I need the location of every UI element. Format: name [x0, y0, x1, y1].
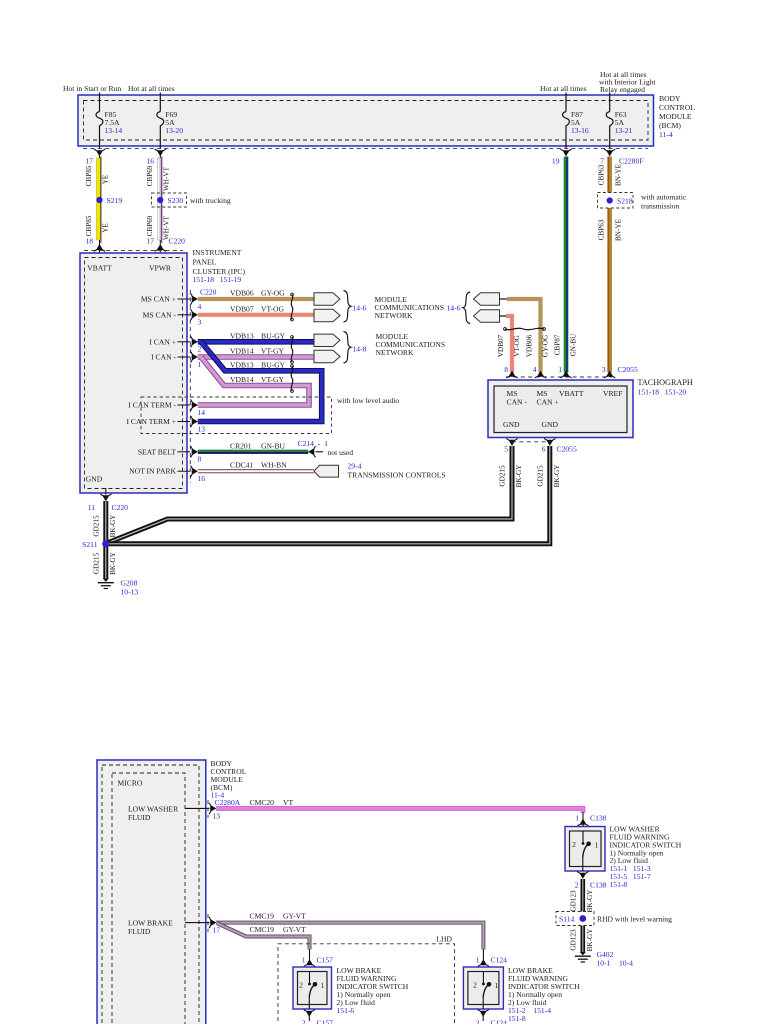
svg-text:I CAN TERM -: I CAN TERM - — [128, 401, 176, 410]
svg-text:LHD: LHD — [436, 935, 452, 944]
C124 switch internals — [473, 972, 499, 1010]
tachograph pin name VBATT — [559, 389, 584, 398]
svg-text:13-21: 13-21 — [615, 126, 633, 135]
svg-text:not used: not used — [328, 448, 354, 457]
twisted pair marker I CAN TERM pair — [291, 365, 294, 393]
svg-text:VREF: VREF — [603, 389, 622, 398]
wire label CBP85 upper — [85, 165, 93, 186]
svg-text:Hot in Start or Run: Hot in Start or Run — [63, 84, 121, 93]
connector arrow BCM pin 17 — [85, 149, 105, 166]
svg-text:11: 11 — [88, 503, 96, 512]
svg-text:1: 1 — [575, 814, 579, 823]
wire label GD215 (tach pin6) — [537, 465, 545, 487]
IPC pin 17 label and C220 — [146, 237, 185, 246]
wire label CMC20 VT — [250, 798, 294, 807]
low brake fluid warning indicator switch C124 box — [463, 967, 503, 1009]
svg-text:CMC19: CMC19 — [250, 911, 275, 920]
LHD brake switch pin 1 arrow C157 — [302, 949, 333, 967]
IPC pin name NOT IN PARK — [129, 467, 190, 476]
wire label WH-VT upper — [163, 166, 171, 191]
svg-text:CMC20: CMC20 — [250, 798, 275, 807]
tachograph bottom pin 6 arrow and C2055 — [542, 439, 577, 454]
svg-text:CBP87: CBP87 — [554, 334, 562, 355]
svg-text:VDB13: VDB13 — [230, 331, 254, 340]
wire label WH-VT lower — [163, 215, 171, 240]
low washer fluid warning indicator switch C138 box — [565, 827, 605, 872]
svg-text:G208: G208 — [121, 579, 138, 588]
svg-text:GD123: GD123 — [570, 929, 578, 951]
BCM box bottom (Body Control Module) — [97, 760, 206, 1024]
not in park wire CDC41 WH-BN from IPC pin 16 — [198, 461, 314, 474]
svg-text:14-8: 14-8 — [353, 345, 367, 354]
svg-text:4: 4 — [198, 302, 202, 311]
svg-text:Hot at all times: Hot at all times — [540, 84, 587, 93]
fuse F63 5A — [606, 110, 632, 135]
C124 switch label — [508, 966, 580, 1023]
wire CBP85 YE yellow vertical (pin17 to S219 to pin18) — [97, 152, 101, 245]
IPC pin 18 label — [85, 237, 93, 246]
splice S211 — [82, 540, 109, 549]
svg-text:2: 2 — [302, 1019, 306, 1024]
svg-text:BK-GY: BK-GY — [109, 514, 117, 538]
wire CMC19 GY-VT lower from BCM pin 17 to LHD brake switch C157 — [217, 923, 310, 949]
IPC pin name I CAN - — [151, 353, 190, 362]
svg-text:GD215: GD215 — [93, 553, 101, 575]
wire label CBP87 — [554, 334, 562, 355]
wire label CBP69 upper — [146, 165, 154, 186]
ground wire GD215 BK-GY from tachograph pin 5 to splice S211 — [105, 446, 512, 544]
BCM pin 17 arrow — [209, 917, 220, 935]
ground G402 — [575, 950, 633, 968]
seat belt wire CR201 GN-BU from IPC pin 8 — [198, 441, 308, 454]
MODULE COMMUNICATIONS NETWORK label (I CAN) — [376, 332, 446, 357]
svg-text:BN-YE: BN-YE — [615, 218, 623, 241]
wire label CBP63 lower — [598, 219, 606, 240]
svg-text:INSTRUMENT: INSTRUMENT — [193, 248, 242, 257]
svg-text:16: 16 — [146, 157, 154, 166]
connector dashed line above IPC — [84, 249, 183, 251]
svg-text:CBP63: CBP63 — [598, 219, 606, 240]
ground wire GD215 BK-GY from tachograph pin 6 to splice S211 — [105, 446, 550, 544]
connector arrow into IPC VBATT — [94, 244, 105, 258]
wire CBP87 GN-BU green vertical from BCM pin19 to tachograph pin1 — [564, 157, 569, 373]
wire label BK-GY lower — [586, 928, 594, 952]
svg-text:CMC19: CMC19 — [250, 925, 275, 934]
svg-text:BN-YE: BN-YE — [615, 163, 623, 186]
wire label VDB06 — [526, 334, 534, 357]
svg-text:GD215: GD215 — [537, 465, 545, 487]
splice S219 — [96, 196, 122, 205]
splice S114 RHD with level warning — [556, 912, 672, 926]
svg-text:17: 17 — [146, 237, 154, 246]
svg-text:with trucking: with trucking — [190, 196, 231, 205]
svg-text:5: 5 — [504, 445, 508, 454]
IPC pin 4 arrow — [191, 293, 202, 310]
svg-text:BK-GY: BK-GY — [586, 928, 594, 952]
wire label CBP85 lower — [85, 215, 93, 236]
svg-text:BK-GY: BK-GY — [109, 551, 117, 575]
connector arrow BCM pin 7, C2280F — [600, 149, 643, 166]
svg-text:VT-OG: VT-OG — [513, 335, 521, 357]
connector C220 label at IPC right — [200, 288, 217, 297]
IPC internal pin name VPWR — [149, 264, 172, 273]
svg-text:16: 16 — [198, 474, 206, 483]
C157 switch pin 2 arrow — [302, 1010, 333, 1024]
ground wire GD123 BK-GY from switch to splice S114 — [580, 879, 585, 952]
svg-text:BU-GY: BU-GY — [261, 331, 286, 340]
svg-text:GY-VT: GY-VT — [283, 911, 306, 920]
twisted pair marker tachograph CAN pair (horizontal) — [504, 328, 546, 331]
svg-text:VDB14: VDB14 — [230, 347, 254, 356]
svg-text:10-1: 10-1 — [597, 959, 611, 968]
svg-text:C2280A: C2280A — [215, 798, 241, 807]
svg-text:VDB13: VDB13 — [230, 360, 254, 369]
IPC pin 16 arrow — [191, 466, 206, 483]
tachograph bottom pin 5 arrow — [504, 439, 517, 454]
tachograph pin name GND 1 — [503, 420, 520, 429]
connector pentagon I CAN - — [314, 350, 340, 362]
washer switch internals — [572, 831, 599, 871]
svg-text:RHD with level warning: RHD with level warning — [597, 915, 672, 924]
svg-text:VT: VT — [283, 798, 293, 807]
connector arrow into IPC VPWR — [155, 244, 166, 258]
svg-text:GY-VT: GY-VT — [283, 925, 306, 934]
stub wire from MICRO to BCM pin 17 — [185, 922, 210, 924]
fuse F87 5A — [563, 110, 589, 135]
connector C214 pin 1 not used arrow — [298, 439, 354, 457]
svg-text:VT-OG: VT-OG — [261, 304, 284, 313]
wire: F69 feed vertical — [159, 93, 161, 149]
svg-text:C138: C138 — [590, 814, 607, 823]
svg-text:6: 6 — [542, 445, 546, 454]
IPC pin 13 arrow — [191, 416, 206, 433]
IPC pin name MS CAN - — [143, 310, 190, 319]
IPC internal pin name VBATT — [87, 264, 112, 273]
BCM bottom label text — [211, 759, 247, 800]
ref 14-6 and brace for tachograph CAN pair — [447, 292, 471, 324]
wire label GY-OG — [542, 335, 550, 357]
MODULE COMMUNICATIONS NETWORK label (MS CAN) — [375, 295, 445, 320]
twisted pair marker MS CAN pair — [291, 293, 294, 321]
svg-text:VPWR: VPWR — [149, 264, 172, 273]
svg-text:CBP69: CBP69 — [146, 215, 154, 236]
svg-text:CAN -: CAN - — [507, 398, 528, 407]
svg-text:2: 2 — [575, 881, 579, 890]
svg-text:PANEL: PANEL — [193, 258, 217, 267]
BCM internal label LOW WASHER FLUID — [128, 805, 179, 823]
wire label BN-YE lower — [615, 218, 623, 241]
ground G208 — [98, 579, 139, 597]
svg-text:C138: C138 — [590, 881, 607, 890]
connector arrow BCM pin 16 — [146, 149, 165, 166]
svg-text:3: 3 — [602, 365, 606, 374]
IPC pin name MS CAN + — [141, 295, 190, 304]
wire VDB13 BU-GY from IPC pin2 to connector — [198, 331, 314, 342]
svg-text:MICRO: MICRO — [118, 779, 143, 788]
wire label BK-GY upper — [586, 889, 594, 913]
fuse F69 5A — [157, 110, 183, 135]
svg-text:151-8: 151-8 — [508, 1014, 526, 1023]
svg-text:C2280F: C2280F — [619, 157, 643, 166]
svg-text:NOT IN PARK: NOT IN PARK — [129, 467, 176, 476]
IPC pin 3 arrow — [191, 309, 202, 326]
svg-text:S230: S230 — [168, 196, 184, 205]
svg-text:MS CAN -: MS CAN - — [143, 310, 177, 319]
tachograph pin 1 arrow — [558, 365, 571, 378]
BCM pin 13 arrow C2280A — [209, 798, 241, 821]
svg-text:Hot at all times: Hot at all times — [128, 84, 175, 93]
wire label YE upper — [102, 174, 110, 184]
splice S230 with trucking option box — [152, 193, 231, 207]
wire label BN-YE upper — [615, 163, 623, 186]
svg-text:VBATT: VBATT — [559, 389, 584, 398]
svg-text:SEAT BELT: SEAT BELT — [138, 447, 177, 456]
connector dashed line below tachograph — [512, 441, 550, 443]
wire label VT-OG — [513, 335, 521, 357]
connector dashed line above tachograph — [506, 376, 612, 378]
svg-text:18: 18 — [85, 237, 93, 246]
tachograph pin name GND 2 — [542, 420, 559, 429]
svg-text:14-6: 14-6 — [447, 304, 461, 313]
svg-text:GND: GND — [542, 420, 559, 429]
twisted pair marker I CAN pair — [291, 336, 294, 364]
svg-text:TRANSMISSION CONTROLS: TRANSMISSION CONTROLS — [348, 471, 446, 480]
svg-text:19: 19 — [552, 157, 560, 166]
svg-text:CBP85: CBP85 — [85, 215, 93, 236]
tachograph pin name MS CAN - — [507, 389, 528, 407]
svg-text:VDB07: VDB07 — [230, 304, 254, 313]
svg-text:10-13: 10-13 — [121, 588, 139, 597]
wire: F87 feed vertical — [565, 93, 567, 149]
svg-text:13-20: 13-20 — [165, 126, 183, 135]
wire label VDB07 — [497, 334, 505, 357]
svg-text:151-18 151-19: 151-18 151-19 — [193, 275, 242, 284]
svg-text:TACHOGRAPH: TACHOGRAPH — [638, 378, 693, 387]
svg-text:8: 8 — [198, 455, 202, 464]
svg-text:GND: GND — [503, 420, 520, 429]
svg-text:1: 1 — [302, 956, 306, 965]
svg-text:10-4: 10-4 — [619, 959, 633, 968]
svg-text:GY-OG: GY-OG — [542, 335, 550, 357]
svg-text:1: 1 — [476, 956, 480, 965]
connector pentagon MS CAN - — [314, 309, 340, 321]
svg-text:YE: YE — [102, 174, 110, 184]
IPC pin 2 arrow — [191, 336, 202, 353]
connector pentagon to tachograph MS CAN - (VT-OG) — [474, 310, 508, 322]
svg-text:C220: C220 — [169, 237, 186, 246]
tachograph pin name MS CAN + — [537, 389, 559, 407]
svg-text:VDB06: VDB06 — [526, 334, 534, 357]
svg-text:1: 1 — [495, 981, 499, 990]
svg-text:NETWORK: NETWORK — [376, 348, 414, 357]
svg-text:C124: C124 — [491, 956, 508, 965]
svg-text:CR201: CR201 — [230, 441, 252, 450]
IPC internal pin name GND — [86, 475, 103, 484]
svg-text:C2055: C2055 — [557, 445, 577, 454]
svg-text:GND: GND — [86, 475, 103, 484]
connector pentagon MS CAN + — [314, 293, 340, 305]
svg-text:FLUID: FLUID — [128, 813, 151, 822]
wire label BK-GY (tach pin5) — [515, 464, 523, 488]
svg-text:C124: C124 — [491, 1019, 508, 1024]
svg-text:VDB07: VDB07 — [497, 334, 505, 357]
power feed label: Hot in Start or Run — [63, 84, 121, 93]
wire CBP69 WH-VT vertical (pin16 to S230 to pin17) — [157, 152, 162, 245]
wire VDB06 GY-OG into tachograph pin 4 — [507, 299, 541, 373]
svg-text:13: 13 — [198, 424, 206, 433]
wire CBP63 BN-YE vertical from BCM pin7 to S218 to tachograph pin3 — [607, 157, 612, 373]
wire label GD123 lower — [570, 929, 578, 951]
connector dashed line below BCM — [83, 148, 648, 150]
svg-text:GY-OG: GY-OG — [261, 289, 285, 298]
wire VDB13 BU-GY loop from pin2 down to pin13 (I CAN TERM +) — [198, 342, 322, 422]
svg-text:C2055: C2055 — [618, 365, 638, 374]
svg-text:GN-BU: GN-BU — [570, 333, 578, 357]
tachograph pin name VREF — [603, 389, 622, 398]
svg-text:S219: S219 — [107, 196, 123, 205]
svg-text:MS CAN +: MS CAN + — [141, 295, 176, 304]
svg-text:FLUID: FLUID — [128, 927, 151, 936]
washer switch pin 2 arrow C138 — [575, 872, 607, 890]
svg-text:BU-GY: BU-GY — [261, 360, 286, 369]
svg-text:NETWORK: NETWORK — [375, 311, 413, 320]
svg-text:(BCM): (BCM) — [659, 121, 681, 130]
svg-text:1: 1 — [595, 841, 599, 850]
LHD option dashed box — [278, 935, 455, 1024]
BCM (Body Control Module) box top — [78, 95, 654, 146]
with low level audio option dashed box — [141, 396, 399, 434]
connector pentagon to tachograph MS CAN + (GY-OG) — [474, 293, 509, 305]
wire label CMC19 GY-VT upper — [250, 911, 307, 920]
wire label BK-GY upper — [109, 514, 117, 538]
svg-text:29-4: 29-4 — [348, 462, 362, 471]
svg-text:BK-GY: BK-GY — [553, 464, 561, 488]
svg-text:Relay engaged: Relay engaged — [600, 85, 645, 94]
svg-text:C220: C220 — [200, 288, 217, 297]
svg-text:BK-GY: BK-GY — [586, 889, 594, 913]
C157 switch internals — [299, 972, 325, 1010]
MICRO sub-module dashed box — [112, 773, 185, 1024]
wire label CMC19 GY-VT lower — [250, 925, 307, 934]
IPC pin name SEAT BELT — [138, 447, 190, 456]
IPC pin 1 arrow — [191, 351, 202, 368]
ground wire GD215 BK-GY from IPC GND to ground G208 — [103, 501, 108, 579]
svg-text:YE: YE — [102, 223, 110, 233]
svg-text:GD215: GD215 — [93, 515, 101, 537]
svg-text:I CAN TERM +: I CAN TERM + — [127, 417, 177, 426]
wire: F63 feed vertical — [609, 93, 611, 149]
svg-text:BODY: BODY — [659, 94, 681, 103]
IPC pin 8 arrow — [191, 446, 202, 463]
fuse F85 7.5A — [96, 110, 122, 135]
svg-text:I CAN -: I CAN - — [151, 353, 176, 362]
svg-text:4: 4 — [533, 365, 537, 374]
svg-text:CBP85: CBP85 — [85, 165, 93, 186]
C157 switch label — [337, 966, 409, 1015]
wire label GD215 (tach pin5) — [499, 465, 507, 487]
svg-text:VT-GY: VT-GY — [261, 347, 284, 356]
C124 switch pin 2 arrow — [476, 1010, 507, 1024]
svg-text:BK-GY: BK-GY — [515, 464, 523, 488]
wire label CBP69 lower — [146, 215, 154, 236]
svg-text:2: 2 — [476, 1019, 480, 1024]
wire label BK-GY lower — [109, 551, 117, 575]
wire label YE lower — [102, 223, 110, 233]
svg-text:CDC41: CDC41 — [230, 461, 253, 470]
svg-text:CBP63: CBP63 — [598, 164, 606, 185]
svg-text:CAN +: CAN + — [537, 398, 559, 407]
splice S218 with automatic transmission option box — [598, 193, 687, 211]
wire label CBP63 upper — [598, 164, 606, 185]
svg-text:3: 3 — [198, 318, 202, 327]
power feed label: Hot at all times with Interior Light Relay engaged (F63) — [599, 70, 656, 94]
brake switch pin 1 arrow C124 — [476, 949, 507, 967]
wire CMC20 VT from BCM pin 13 to washer switch C138 — [216, 808, 583, 813]
svg-text:151-18 151-20: 151-18 151-20 — [638, 388, 687, 397]
svg-text:transmission: transmission — [641, 202, 680, 211]
wire VDB14 VT-GY loop from pin1 down to pin14 (I CAN TERM -) — [198, 357, 309, 405]
wire label GD215 upper — [93, 515, 101, 537]
svg-text:GN-BU: GN-BU — [261, 441, 286, 450]
BCM internal label LOW BRAKE FLUID — [128, 919, 173, 937]
brace and ref 14-8 for I CAN pair — [344, 332, 367, 364]
svg-text:I CAN +: I CAN + — [149, 337, 176, 346]
svg-text:17: 17 — [85, 157, 93, 166]
svg-text:CONTROL: CONTROL — [659, 103, 695, 112]
svg-text:VBATT: VBATT — [87, 264, 112, 273]
wire label BK-GY (tach pin6) — [553, 464, 561, 488]
svg-text:S211: S211 — [82, 540, 98, 549]
wire CMC19 GY-VT upper from BCM pin 17 to brake switch C124 — [216, 923, 483, 950]
svg-text:VDB06: VDB06 — [230, 289, 254, 298]
svg-text:C157: C157 — [317, 1019, 334, 1024]
connector pentagon I CAN + — [314, 334, 340, 346]
svg-text:S114: S114 — [559, 915, 575, 924]
washer switch pin 1 arrow C138 — [575, 812, 606, 827]
svg-text:11-4: 11-4 — [659, 130, 673, 139]
connector arrow BCM pin 19 — [552, 149, 572, 166]
svg-text:C220: C220 — [112, 503, 129, 512]
washer switch label — [610, 825, 682, 890]
IPC pin name I CAN + — [149, 337, 190, 346]
svg-text:2: 2 — [572, 840, 576, 849]
svg-text:WH-BN: WH-BN — [261, 461, 287, 470]
tachograph label — [638, 378, 693, 397]
svg-text:1: 1 — [321, 981, 325, 990]
svg-text:1: 1 — [558, 365, 562, 374]
svg-text:7: 7 — [600, 157, 604, 166]
svg-text:151-8: 151-8 — [610, 880, 628, 889]
svg-text:with low level audio: with low level audio — [337, 396, 399, 405]
svg-text:GD215: GD215 — [499, 465, 507, 487]
power feed label: Hot at all times (F69) — [128, 84, 175, 93]
svg-text:14: 14 — [198, 408, 206, 417]
svg-text:WH-VT: WH-VT — [163, 166, 171, 191]
svg-text:C157: C157 — [317, 956, 334, 965]
low brake fluid warning indicator switch C157 box (LHD) — [293, 967, 332, 1009]
svg-text:13-16: 13-16 — [571, 126, 589, 135]
wire label GD123 upper — [570, 890, 578, 912]
wire label GD215 lower — [93, 553, 101, 575]
IPC pin 14 arrow — [191, 399, 206, 416]
wire label GN-BU — [570, 333, 578, 357]
brace and ref 14-6 for MS CAN pair — [344, 291, 367, 323]
svg-text:VT-GY: VT-GY — [261, 375, 284, 384]
tachograph box — [488, 380, 633, 438]
wire VDB06 GY-OG from IPC pin4 to connector — [198, 289, 314, 299]
IPC pin name I CAN TERM + — [127, 417, 191, 426]
svg-text:S218: S218 — [617, 197, 633, 206]
